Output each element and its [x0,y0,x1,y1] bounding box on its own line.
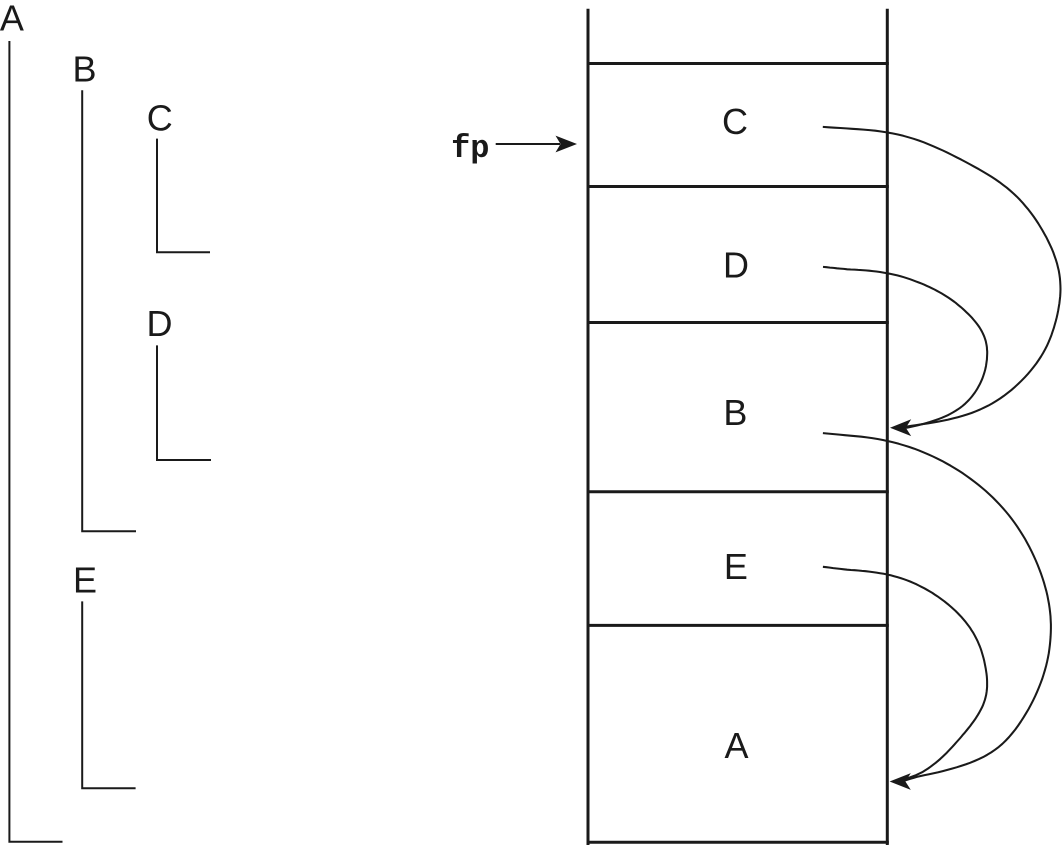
saved fp curve from frame E to frame A [823,567,987,780]
divider B/E [587,490,889,493]
arrowhead into frame B [890,419,911,436]
svg-text:A: A [0,0,24,39]
stack bottom line [587,841,889,844]
svg-text:D: D [147,303,173,344]
arrowhead into frame A [890,773,911,790]
svg-text:B: B [723,392,747,433]
svg-text:D: D [723,245,749,286]
svg-text:E: E [73,560,97,601]
bracket D lifetime line [157,345,211,460]
fp arrowhead [556,136,578,153]
bracket E lifetime line [82,601,135,788]
saved fp curve from frame B to frame A [823,433,1051,781]
stack right wall [886,9,889,845]
svg-text:E: E [724,546,748,587]
saved fp curve from frame C to frame B [823,127,1061,427]
stack left wall [587,9,590,845]
bracket B lifetime line [82,90,136,531]
saved fp curve from frame D to frame B [823,267,987,428]
svg-text:A: A [724,725,748,766]
divider D/B [587,321,889,324]
svg-text:fp: fp [451,130,489,167]
svg-text:C: C [147,98,173,139]
divider E/A [587,624,889,627]
bracket A lifetime line [9,41,62,842]
divider above frame C [587,62,889,65]
divider C/D [587,185,889,188]
fp arrow shaft [496,143,560,145]
svg-text:B: B [72,49,96,90]
bracket C lifetime line [157,139,210,253]
svg-text:C: C [722,101,748,142]
